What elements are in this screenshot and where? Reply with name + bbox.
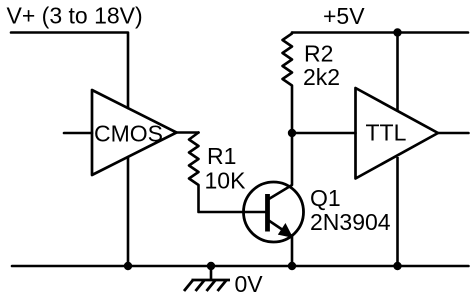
svg-text:TTL: TTL	[366, 119, 407, 145]
junction node +5V/TTL power	[393, 28, 401, 36]
svg-text:V+ (3 to 18V): V+ (3 to 18V)	[7, 2, 143, 28]
wire TTL output stub	[438, 132, 469, 135]
svg-text:Q1: Q1	[310, 185, 341, 211]
label R1	[207, 143, 236, 169]
net label +5V	[323, 3, 365, 29]
transistor Q1 emitter lead	[268, 220, 292, 266]
svg-text:2N3904: 2N3904	[310, 209, 391, 235]
label CMOS	[94, 120, 163, 146]
wire TTL power lead (rail to triangle)	[396, 33, 399, 111]
junction node CMOS ground	[124, 262, 132, 270]
label 2N3904	[310, 209, 391, 235]
wire TTL ground lead (triangle to bottom rail)	[396, 157, 399, 266]
transistor Q1 emitter arrowhead	[279, 224, 292, 237]
junction node R2/collector/TTL-input	[288, 129, 296, 137]
transistor Q1 base bar	[265, 194, 270, 232]
label TTL	[366, 119, 407, 145]
op-amp U1 CMOS buffer triangle	[92, 90, 177, 175]
label Q1	[310, 185, 341, 211]
ground chassis symbol	[184, 266, 230, 291]
wire CMOS output to R1	[177, 131, 199, 134]
label 10K	[205, 168, 247, 194]
transistor Q1 collector lead	[268, 133, 292, 200]
svg-text:CMOS: CMOS	[94, 120, 163, 146]
net label V+ (3 to 18V)	[7, 2, 143, 28]
wire +5V rail	[292, 31, 468, 34]
op-amp U2 TTL buffer triangle	[356, 88, 439, 179]
junction node emitter/bottom rail	[288, 262, 296, 270]
wire CMOS ground lead (triangle to bottom rail)	[127, 157, 130, 266]
junction node TTL ground/bottom rail	[393, 262, 401, 270]
svg-text:R1: R1	[207, 143, 236, 169]
wire CMOS input stub	[64, 132, 92, 135]
svg-text:0V: 0V	[235, 271, 264, 297]
label R2	[304, 41, 333, 67]
junction node ground symbol tap	[207, 262, 215, 270]
wire 0V bottom rail	[12, 265, 469, 268]
wire collector node to TTL input	[292, 132, 356, 135]
svg-text:2k2: 2k2	[303, 64, 340, 90]
transistor Q1 body circle	[244, 182, 304, 242]
svg-text:10K: 10K	[205, 168, 247, 194]
label 2k2	[303, 64, 340, 90]
net label 0V	[235, 271, 264, 297]
resistor R1	[189, 133, 266, 213]
svg-text:+5V: +5V	[323, 3, 365, 29]
svg-text:R2: R2	[304, 41, 333, 67]
resistor R2	[283, 33, 293, 134]
wire V+ rail top-left	[11, 33, 128, 109]
